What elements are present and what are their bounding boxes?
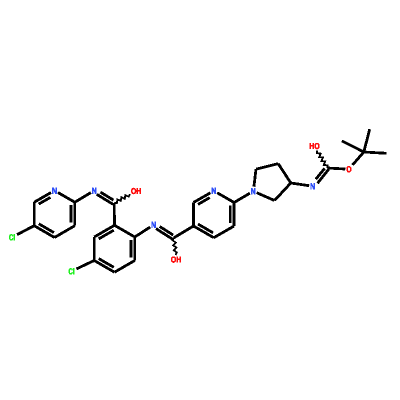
atom O1 ester — [347, 166, 352, 172]
atom N4 carbamate — [311, 183, 315, 189]
double bond C_C4=C_C5 (pyridine C) — [194, 226, 214, 238]
bond Cq-M3 methyl — [364, 152, 387, 153]
double bond N3=C8 — [156, 229, 173, 240]
bond C_N-C_C2 (pyridine C) — [217, 193, 234, 203]
double bond A_C4=A_C5 (pyridine A) — [34, 226, 54, 238]
bond C7-B1 — [113, 203, 116, 226]
bond B5-B6 (benzene B) — [93, 237, 96, 261]
bond B5-Cl2 — [77, 261, 95, 269]
double bond C_C6=C_N (pyridine C) — [194, 193, 211, 203]
double bond A_C6=A_N1 (pyridine A) — [34, 193, 51, 203]
atom Cl2 — [69, 268, 74, 274]
bond C8-C_C5 — [174, 226, 194, 238]
bond A_C2-N2 — [75, 193, 91, 203]
double bond A_C2=A_C3 (pyridine A) — [73, 202, 76, 226]
double bond C_C2=C_C3 (pyridine C) — [233, 203, 236, 227]
bond Cq-M2 methyl — [342, 141, 364, 152]
wavy bond C8-OH2 — [173, 238, 177, 255]
bond B2-N3 — [135, 227, 150, 237]
bond D2-D3 (pyrrolidine D) — [275, 183, 291, 201]
bond D3-N4 — [291, 183, 309, 186]
bond D4-D5 (pyrrolidine D) — [256, 164, 278, 170]
bond O1-Cq — [353, 152, 364, 165]
bond A_C3-A_C4 (pyridine A) — [55, 226, 75, 238]
bond C_C5-C_C6 (pyridine C) — [192, 203, 195, 227]
atom Cl1 — [9, 234, 14, 240]
atom OH1 — [131, 188, 141, 194]
double bond B6=B1 (benzene B) — [94, 225, 114, 237]
wavy bond C9-HO3 — [317, 151, 328, 169]
double bond B4=B5 (benzene B) — [94, 261, 114, 273]
double bond N2=C7 — [97, 194, 114, 204]
atom N pyridine C — [212, 188, 216, 194]
atom OH2 — [171, 257, 181, 263]
bond A_C5-Cl1 — [17, 226, 34, 235]
bond A_N1-A_C2 (pyridine A) — [58, 193, 75, 203]
wavy bond C7-OH1 — [114, 194, 130, 203]
bond C9-O1 — [327, 168, 345, 169]
atom N3 imine — [152, 222, 156, 228]
bond Cq-M1 methyl — [364, 129, 370, 152]
atom HO3 — [310, 143, 320, 149]
bond C_C3-C_C4 (pyridine C) — [214, 226, 234, 238]
bond D5-D_N (pyrrolidine D) — [254, 169, 256, 187]
bond B1-B2 (benzene B) — [115, 225, 135, 237]
atom N pyrrolidine D — [251, 188, 255, 194]
atom N1 pyridine A — [53, 188, 57, 194]
atom N2 imine — [92, 188, 96, 194]
bond D3-D4 (pyrrolidine D) — [278, 164, 291, 183]
bond B3-B4 (benzene B) — [115, 261, 135, 273]
bond D_N-D2 (pyrrolidine D) — [257, 193, 275, 201]
double bond B2=B3 (benzene B) — [133, 237, 136, 261]
double bond N4=C9 — [318, 169, 329, 183]
bond C_C2-D_N — [234, 193, 250, 202]
bond A_C5-A_C6 (pyridine A) — [33, 202, 36, 226]
